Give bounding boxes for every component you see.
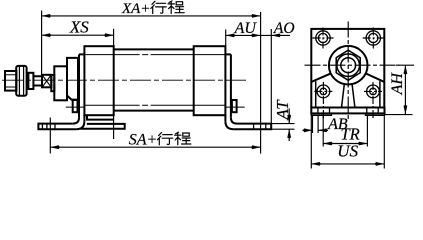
top-left hole	[316, 31, 330, 45]
glyph 行 of XA+行程	[151, 1, 166, 13]
top-right hole	[366, 31, 380, 45]
cylinder tube top	[114, 48, 194, 50]
bracket wing edge left	[315, 81, 317, 107]
AB dim line left	[303, 129, 313, 131]
dim line AU-AO	[226, 34, 290, 36]
svg-text:US: US	[337, 141, 358, 160]
front bracket inner fillet	[73, 118, 79, 124]
bracket wing edge right	[379, 81, 381, 107]
svg-text:AO: AO	[273, 20, 295, 37]
ext line AU left	[225, 30, 227, 47]
bracket V notch	[342, 83, 355, 107]
front bracket bolt line	[66, 106, 85, 108]
rear bracket inner fillet	[231, 118, 237, 124]
tie rod upper	[85, 54, 226, 56]
AU arrows	[226, 34, 236, 38]
AT ext lines	[271, 124, 294, 130]
US ext lines	[311, 116, 384, 169]
boss circle	[329, 46, 368, 85]
rear bracket outer fillet	[225, 121, 233, 129]
bracket shoulder left	[312, 73, 331, 81]
rear head	[194, 46, 226, 115]
SA arrows	[50, 145, 60, 149]
right foot strip	[366, 113, 385, 115]
dim line XA	[42, 15, 261, 17]
rear foot hole	[254, 124, 266, 130]
arrowheads right view	[303, 65, 407, 166]
flange plate	[311, 29, 384, 108]
AB ext lines	[313, 116, 319, 133]
ext line SA left	[49, 118, 51, 154]
ext line XS right (long)	[113, 29, 115, 139]
front foot	[38, 124, 76, 130]
bottom-left bolt hole	[317, 85, 330, 98]
dimensions: thin strokes	[42, 11, 295, 154]
port boss under front head	[87, 115, 114, 120]
crosshair top-left hole	[313, 28, 334, 49]
svg-text:AU: AU	[234, 20, 258, 37]
glyph 行 of SA+行程	[157, 133, 172, 145]
TR arrows	[323, 142, 333, 146]
AO arrow	[271, 34, 281, 38]
band ticks left	[318, 108, 330, 114]
main axis centerline	[2, 79, 246, 81]
bracket shoulder right	[366, 73, 384, 81]
glyph 程 of SA+行程	[175, 132, 191, 145]
rod thread stub	[5, 71, 16, 91]
crosshair bottom-right hole	[364, 82, 382, 119]
tie rod lower	[85, 104, 226, 106]
ext line XA/XS left	[41, 11, 43, 76]
hex nut	[16, 66, 26, 96]
bottom-right bolt hole	[367, 85, 380, 98]
AH top extension	[396, 64, 414, 66]
nut hexagon	[336, 50, 360, 80]
band ticks right	[367, 108, 378, 114]
labels right view	[327, 72, 406, 161]
front head	[84, 46, 113, 115]
washer	[28, 73, 33, 89]
AT arrows	[287, 114, 291, 124]
rod hole	[341, 58, 356, 73]
svg-text:SA+: SA+	[129, 131, 158, 148]
svg-text:AT: AT	[273, 99, 292, 121]
crosshair top-right hole	[363, 28, 384, 49]
glyph 程 of XA+行程	[168, 1, 184, 14]
rod wrench flats box	[42, 75, 51, 88]
dim line SA	[50, 146, 260, 148]
foot band	[311, 108, 384, 114]
hex nut facets	[19, 66, 23, 96]
AB arrows	[303, 128, 313, 132]
US dim line	[311, 163, 384, 165]
vertical axis end view	[347, 22, 349, 121]
AH base extension line	[385, 114, 413, 116]
ext line AO right	[270, 29, 272, 124]
labels left view	[69, 1, 295, 148]
collar	[51, 75, 54, 91]
AH arrows	[404, 65, 408, 75]
rear bracket tab	[232, 100, 237, 112]
TR ext lines	[323, 116, 367, 147]
gland retainer	[67, 58, 78, 100]
horizontal axis end view	[305, 64, 400, 66]
svg-text:XA+: XA+	[121, 1, 150, 17]
cylinder tube bottom	[114, 110, 194, 112]
US arrows	[311, 162, 321, 166]
rear bracket bolt line	[225, 106, 244, 108]
rear bracket leg	[225, 54, 231, 121]
AH dim line	[404, 65, 406, 114]
crosshair bottom-left hole	[314, 82, 332, 119]
front bracket leg	[79, 54, 84, 121]
CJK glyphs	[151, 1, 191, 145]
front bracket outer fillet	[76, 121, 84, 129]
dim line XS	[42, 34, 114, 36]
thread root lines	[6, 75, 17, 87]
AT dim verticals	[288, 109, 290, 142]
arrowheads left view	[42, 14, 292, 149]
XA arrows	[42, 14, 52, 18]
rear foot	[233, 124, 271, 130]
XS arrows	[42, 33, 52, 37]
wrench flats cross	[42, 75, 51, 88]
nut chamfer circle	[337, 54, 360, 77]
AB dim line right	[318, 129, 328, 131]
gland boss	[54, 66, 67, 100]
TR dim line	[323, 143, 367, 145]
left foot strip	[311, 113, 331, 115]
ext line right long (XA/AU/SA)	[260, 12, 262, 154]
front foot hole	[42, 124, 55, 130]
svg-text:AH: AH	[389, 72, 406, 96]
piston rod	[33, 76, 42, 85]
svg-text:XS: XS	[69, 17, 89, 36]
front bracket tab	[73, 100, 78, 112]
front foot right strip	[81, 124, 125, 129]
